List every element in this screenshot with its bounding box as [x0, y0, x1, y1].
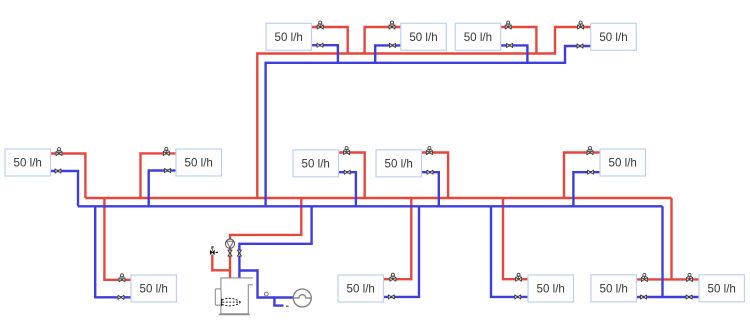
svg-text:50 l/h: 50 l/h [409, 31, 437, 44]
wire radiator M5 supply branch [564, 153, 600, 199]
wire radiator M5 return branch [573, 172, 600, 206]
svg-text:50 l/h: 50 l/h [708, 283, 736, 296]
valve pump outlet [228, 250, 232, 256]
wire radiator B1 supply branch [104, 198, 131, 280]
lockshield valve M5 [588, 170, 594, 174]
expansion vessel [293, 289, 311, 307]
wire boiler return from blue main [239, 206, 311, 278]
wire top-row supply riser and sub-main feeding T4 [257, 27, 591, 198]
thermostatic valve B4 [641, 273, 647, 281]
lockshield valve M2 [165, 168, 171, 172]
flame [222, 298, 241, 306]
svg-text:50 l/h: 50 l/h [14, 157, 42, 170]
thermostatic valve M3 [344, 147, 350, 155]
wire safety valve branch [212, 255, 230, 271]
lockshield valve M1 [55, 169, 61, 173]
thermostatic valve M4 [426, 147, 432, 155]
wire radiator T1 return branch [311, 45, 338, 63]
wire radiator B2 supply branch [384, 198, 411, 279]
boiler [219, 278, 254, 315]
lockshield valve B3 [515, 295, 521, 299]
svg-text:50 l/h: 50 l/h [599, 31, 627, 44]
lockshield valve T4 [577, 44, 583, 48]
thermostatic valve B3 [516, 273, 522, 281]
wire radiator M4 supply branch [421, 153, 448, 199]
wire radiator M1 return branch [50, 171, 78, 206]
wire return riser from radiators B4 B5 [661, 206, 663, 297]
wire radiator T1 supply branch [311, 27, 348, 54]
radiator T3 50 l/h [455, 23, 501, 50]
wire radiator T2 supply branch [365, 27, 401, 54]
radiator B4 50 l/h [591, 275, 637, 302]
wire radiator B4 B5 return header [636, 296, 699, 298]
radiator M1 50 l/h [5, 149, 51, 176]
burner [215, 289, 221, 305]
wire radiator M2 return branch [149, 171, 176, 207]
wire red main [85, 197, 671, 199]
lockshield valve M4 [427, 170, 433, 174]
lockshield valve M3 [344, 170, 350, 174]
svg-text:50 l/h: 50 l/h [347, 283, 375, 296]
wire radiator T3 return branch [500, 45, 527, 62]
svg-text:50 l/h: 50 l/h [537, 283, 565, 296]
lockshield valve B2 [388, 295, 394, 299]
wire radiator B1 return branch [95, 206, 131, 297]
wire radiator B4 B5 supply header [636, 278, 699, 280]
wire expansion vessel branch [239, 271, 293, 298]
lockshield valve B5 [686, 295, 692, 299]
thermostatic valve B5 [687, 273, 693, 281]
thermostatic valve T3 [505, 21, 511, 29]
wire boiler supply drop to pump [230, 198, 301, 278]
svg-text:50 l/h: 50 l/h [302, 158, 330, 171]
drain valve cap [286, 305, 289, 307]
wire radiator T3 supply branch [500, 27, 536, 54]
radiator T1 50 l/h [266, 23, 312, 50]
wire radiator B3 return branch [491, 206, 528, 297]
wire radiator M1 supply branch [50, 154, 85, 199]
radiator B2 50 l/h [338, 275, 384, 302]
lockshield valve B1 [118, 295, 124, 299]
lockshield valve T1 [317, 43, 323, 47]
radiator B3 50 l/h [528, 275, 574, 302]
radiator M2 50 l/h [176, 149, 222, 176]
thermostatic valve B2 [390, 273, 396, 281]
wire radiator M4 return branch [421, 172, 439, 206]
thermostatic valve B1 [119, 274, 125, 282]
wire radiator B2 return branch [384, 206, 419, 297]
radiator M5 50 l/h [600, 149, 646, 176]
lockshield valve T2 [390, 43, 396, 47]
lockshield valve T3 [507, 43, 513, 47]
wire supply riser to radiators B4 B5 [670, 198, 672, 279]
radiator B5 50 l/h [699, 275, 745, 302]
wire radiator M3 return branch [338, 172, 356, 206]
wire top-row return riser and sub-main feeding T4 [266, 46, 591, 206]
radiator T2 50 l/h [401, 23, 447, 50]
safety valve [210, 247, 218, 255]
thermostatic valve T4 [578, 21, 584, 29]
svg-text:50 l/h: 50 l/h [140, 283, 168, 296]
thermostatic valve M2 [163, 147, 169, 155]
wire fill-drain branch [274, 298, 283, 306]
svg-text:50 l/h: 50 l/h [385, 158, 413, 171]
wire radiator M3 supply branch [338, 153, 365, 199]
wire radiator T2 return branch [375, 45, 401, 62]
thermostatic valve M1 [56, 148, 62, 156]
thermostatic valve T2 [389, 21, 395, 29]
pump [225, 239, 234, 248]
lockshield valve B4 [641, 295, 647, 299]
radiator T4 50 l/h [591, 23, 637, 50]
valve boiler return [237, 250, 241, 256]
radiator B1 50 l/h [131, 275, 177, 302]
radiator M3 50 l/h [293, 150, 339, 177]
wire blue main [78, 205, 663, 207]
thermostatic valve M5 [587, 147, 593, 155]
svg-text:50 l/h: 50 l/h [600, 283, 628, 296]
svg-text:50 l/h: 50 l/h [185, 157, 213, 170]
svg-text:50 l/h: 50 l/h [464, 31, 492, 44]
pressure gauge [264, 292, 268, 297]
thermostatic valve T1 [317, 21, 323, 29]
wire radiator B3 supply branch [503, 198, 528, 279]
wire radiator M2 supply branch [141, 153, 177, 198]
svg-text:50 l/h: 50 l/h [609, 157, 637, 170]
radiator M4 50 l/h [376, 150, 422, 177]
svg-text:50 l/h: 50 l/h [275, 31, 303, 44]
